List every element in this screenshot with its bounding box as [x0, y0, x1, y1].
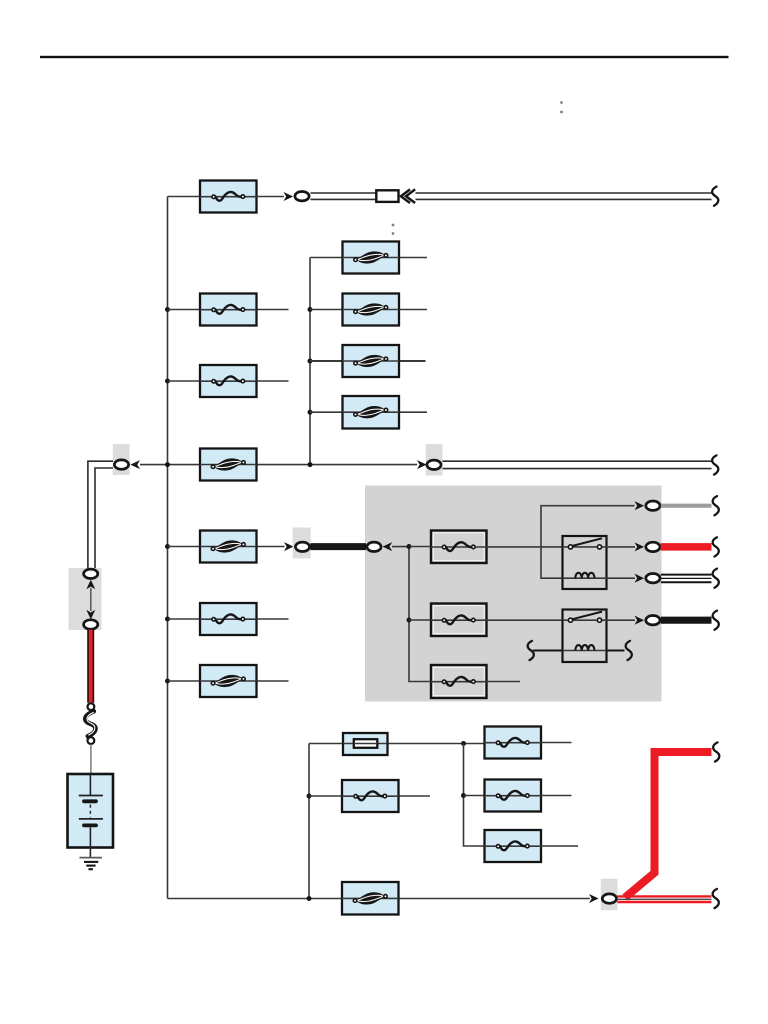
junction row3	[165, 379, 170, 384]
battery	[68, 774, 114, 848]
wire coil K1 feed	[541, 506, 635, 579]
wire to battery	[90, 744, 92, 774]
fuse G1	[430, 531, 487, 564]
break row4	[712, 455, 718, 474]
wire G2 to relay K2	[487, 619, 563, 621]
wire K1 switch out	[607, 546, 636, 548]
double-line wire row1 a	[311, 193, 377, 199]
wire row3	[168, 380, 289, 382]
link wire between connectors	[90, 588, 92, 611]
inline connector J1	[376, 190, 398, 202]
connector black wire	[646, 616, 660, 625]
continuation dots above fuse column	[392, 224, 395, 235]
continuation dots top	[560, 101, 563, 113]
wire row A4	[310, 411, 427, 413]
arrow gray-wire connector	[635, 501, 645, 510]
connector pair highlight	[69, 568, 102, 630]
fusible link FL5	[342, 242, 399, 274]
break red wire mid	[713, 537, 719, 556]
fuse G3	[430, 665, 487, 698]
connector red wire	[646, 542, 660, 551]
fuse B2	[342, 780, 399, 812]
junction fuse row C1	[461, 741, 466, 746]
junction bus2 row A3	[308, 359, 313, 364]
connector row5 b	[367, 542, 381, 551]
wire G3 stub	[487, 681, 521, 683]
wire row6	[168, 618, 289, 620]
fusible link FL1 (top)	[200, 181, 257, 213]
fusible link FL2	[200, 449, 257, 481]
fuse F1	[200, 294, 257, 326]
wire C2 stub	[541, 795, 572, 797]
black wire	[661, 617, 712, 624]
wire C2 left	[464, 795, 485, 797]
fuse G2	[430, 604, 487, 637]
wire row5 left	[168, 546, 285, 548]
junction node row6	[407, 618, 412, 623]
junction row5	[165, 544, 170, 549]
connector row4 left	[114, 460, 128, 469]
wire main fuse row	[309, 743, 485, 745]
fuse F3	[200, 603, 257, 635]
fuse C1	[484, 727, 541, 759]
arrow bottom connector	[589, 894, 599, 903]
junction row7	[165, 679, 170, 684]
wire row1 left	[168, 196, 201, 198]
wire C3 stub	[541, 845, 578, 847]
break black wire	[713, 611, 719, 630]
arrow into row4 left connector	[130, 460, 140, 469]
thick black wire row5	[311, 543, 367, 550]
arrow into connector row5	[284, 542, 294, 551]
junction bus2 row A4	[308, 410, 313, 415]
break row1	[712, 187, 718, 206]
double-line wire row4	[443, 461, 712, 468]
wire K1 coil out	[607, 577, 636, 579]
second bus wire	[309, 258, 311, 465]
fusible link FL8	[342, 396, 399, 429]
wire K2 coil right stub	[607, 650, 625, 652]
wire row1 right	[257, 196, 285, 198]
double-line wire to battery branch	[88, 461, 113, 568]
connector row5 a	[295, 542, 309, 551]
break K2 coil right	[626, 641, 632, 660]
junction row6	[165, 617, 170, 622]
terminal circle lower	[88, 737, 95, 744]
red-black battery cable	[87, 630, 94, 703]
connector striped wire	[646, 574, 660, 583]
fusible link FL3	[200, 531, 257, 563]
fuse C3	[484, 830, 541, 862]
wire to relay block node	[392, 546, 409, 548]
connector highlight bottom	[601, 879, 618, 911]
connector row4 right	[427, 460, 441, 469]
wire K2 coil left stub	[533, 650, 563, 652]
terminal circle upper	[88, 703, 95, 710]
junction node row5	[407, 544, 412, 549]
arrow into connector row1	[284, 192, 294, 201]
break K2 coil left	[528, 641, 534, 660]
break thick red wire	[713, 742, 719, 761]
wire battery to ground	[89, 848, 91, 858]
connector gray wire	[646, 501, 660, 510]
wire G1 to relay K1	[487, 546, 563, 548]
fuse F2	[200, 365, 257, 397]
arrow black-wire connector	[635, 616, 645, 625]
junction row2	[165, 307, 170, 312]
junction bus2 row A2	[308, 307, 313, 312]
junction row4 bus2	[308, 462, 313, 467]
wire row A3	[310, 360, 426, 362]
thick red wire riser	[625, 752, 712, 898]
connector pair upper	[84, 569, 98, 578]
junction C2 row	[461, 793, 466, 798]
fusible link FL6	[342, 294, 399, 326]
arrow into connector row4 right	[417, 460, 427, 469]
relay K2	[563, 610, 607, 663]
break red double wire	[713, 889, 719, 908]
wire row4	[140, 464, 417, 466]
main bus wire	[167, 197, 169, 899]
wire bus2 top to FL5	[310, 257, 427, 259]
bottom branch bus	[308, 744, 310, 899]
wire bottom row	[168, 898, 591, 900]
arrow up	[86, 580, 95, 590]
connector highlight row4 left	[113, 444, 130, 475]
branch wire C column	[464, 744, 485, 847]
striped wire	[661, 575, 712, 583]
relay K1	[563, 536, 607, 589]
gray wire	[661, 504, 712, 508]
wire B2 row	[309, 795, 430, 797]
fusible link FL7	[342, 345, 399, 377]
fusible link pigtail	[85, 711, 95, 736]
connector highlight row4 right	[426, 444, 443, 476]
arrow into connector row5 b	[383, 542, 393, 551]
arrow striped-wire connector	[635, 574, 645, 583]
node wire inside relay block	[409, 547, 431, 682]
connector row1	[295, 192, 309, 201]
wire K2 switch out	[607, 619, 636, 621]
wire row7	[168, 680, 289, 682]
main fuse FL9 (cartridge)	[343, 733, 388, 755]
red double wire bottom	[617, 896, 711, 902]
double-line wire row1 b	[416, 193, 712, 199]
connector pair lower	[84, 620, 98, 629]
fuse C2	[484, 780, 541, 812]
wire node to fuse G2	[409, 619, 431, 621]
break striped wire	[713, 569, 719, 588]
red wire mid	[661, 543, 712, 551]
arrow red-wire connector	[635, 542, 645, 551]
wire C1 stub	[541, 742, 572, 744]
junction B2 row	[307, 794, 312, 799]
connector bottom	[602, 894, 616, 903]
junction bottom row	[307, 896, 312, 901]
relay block (gray)	[365, 486, 662, 702]
arrow down	[86, 610, 95, 620]
junction row4 bus1	[165, 462, 170, 467]
wire row A2	[310, 309, 427, 311]
fusible link FL4	[200, 665, 257, 697]
wire row2	[168, 309, 289, 311]
connector highlight row5	[293, 528, 311, 559]
ground	[80, 858, 103, 870]
fusible link FL10 (bottom)	[342, 882, 399, 915]
wire node to fuse G1	[409, 546, 431, 548]
break gray wire	[713, 496, 719, 515]
chevrons <<	[401, 189, 415, 203]
top horizontal rule	[40, 56, 729, 58]
